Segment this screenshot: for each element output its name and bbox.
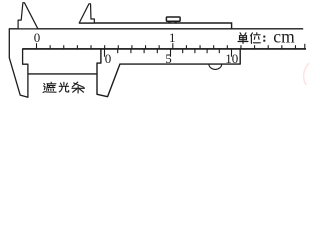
shading strip (遮光条) between jaws: [28, 73, 97, 75]
fullwidth colon of 单位：cm: [263, 36, 265, 42]
svg-text:cm: cm: [273, 26, 295, 46]
locking screw base: [168, 21, 170, 23]
thumb grip semicircle: [209, 64, 222, 69]
vernier scale ticks: [105, 49, 232, 56]
label 条: [72, 82, 85, 93]
svg-text:0: 0: [34, 30, 41, 45]
label 光: [59, 82, 69, 92]
locking screw cap: [166, 17, 180, 21]
svg-text:5: 5: [165, 51, 172, 66]
caliper beam body with fixed lower jaw outline: [9, 29, 306, 98]
main scale ticks: [37, 43, 305, 49]
label 位: [251, 33, 261, 44]
svg-text:10: 10: [225, 51, 238, 66]
vernier plate outline with lower jaw: [97, 49, 240, 97]
slider top plate edge with right step: [79, 23, 231, 29]
label 单: [238, 33, 248, 44]
faint pink scan artifact: [304, 63, 309, 85]
label 遮: [43, 82, 56, 92]
svg-text:1: 1: [169, 30, 176, 45]
svg-text:0: 0: [105, 51, 112, 66]
slider inside jaw (upper spike): [79, 4, 94, 23]
main scale line overdraw: [23, 48, 306, 50]
fixed inside jaw (upper spike): [18, 3, 38, 29]
